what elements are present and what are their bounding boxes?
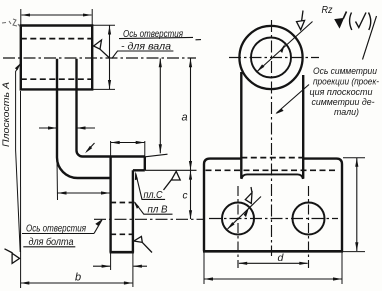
check mark inside parentheses bbox=[356, 13, 367, 28]
surface flag on boss right face (triangle with tail to axis) bbox=[94, 40, 109, 58]
parenthesis left bbox=[350, 13, 352, 31]
extension line: pad width left (base left face extended up) bbox=[110, 141, 112, 157]
step (pad) bottom edge - plane C bbox=[133, 169, 145, 171]
leader/underline of Плоскость А down to datum flag bbox=[16, 64, 21, 253]
dimension: leg length (x 57..110 at y=193) bbox=[58, 192, 111, 194]
dimension b: overall depth at y=277 bbox=[21, 282, 133, 284]
dimension d: between bolt hole centers bbox=[239, 262, 308, 264]
base plate bottom edge bbox=[203, 250, 343, 253]
extension line: base top right bbox=[343, 157, 365, 159]
base plate outline bbox=[204, 159, 342, 252]
extension lines below base plate (thickness dim) bbox=[110, 254, 112, 271]
dimension: pad width (arrows inside pointing out) bbox=[111, 142, 144, 144]
extension line for leg top surface (slightly skewed like the scan) bbox=[145, 154, 168, 157]
upright left edge (tangent) bbox=[240, 72, 242, 179]
svg-text:ция плоскости: ция плоскости bbox=[310, 87, 373, 97]
radius leader arrow pointing at inner fillet bbox=[87, 143, 95, 152]
hidden line: base top edge behind upright bbox=[241, 157, 303, 159]
surface flag on base right face (bottom) bbox=[134, 236, 152, 252]
extension lines: overall width bbox=[203, 253, 205, 285]
dimension c: plane C to bolt axis (vertical at x=190.5) bbox=[190, 171, 192, 219]
hidden line: shaft hole top bbox=[21, 38, 92, 40]
surface flag on left bolt hole with tail bbox=[245, 187, 252, 203]
tiny scribble top-left bbox=[2, 19, 20, 27]
extension line: plane C level extended right bbox=[145, 169, 197, 171]
extension line: boss bottom edge extended right bbox=[92, 88, 115, 90]
upright web left edge with outer fillet into leg bottom bbox=[57, 59, 111, 178]
hidden line: bolt hole lower bbox=[111, 233, 133, 235]
svg-text:проекции (проек-: проекции (проек- bbox=[313, 77, 379, 87]
hidden line: rear pad step across base bbox=[206, 169, 339, 171]
hidden line: bolt hole upper bbox=[111, 202, 133, 204]
extension line above boss left edge bbox=[20, 9, 22, 25]
base plate left face bbox=[109, 157, 111, 253]
extension line: pad width right bbox=[144, 141, 146, 157]
filled surface-finish check symbol bbox=[335, 19, 343, 28]
extension line: base bottom right bbox=[343, 251, 365, 253]
center line: bolt hole axis (side view) bbox=[94, 218, 205, 220]
center line: shaft axis bbox=[3, 57, 196, 59]
dimension: base plate thickness (arrows outside pointing in) bbox=[93, 265, 110, 267]
inner circle: shaft hole bbox=[251, 38, 291, 78]
center line: right bolt hole vertical bbox=[308, 186, 310, 268]
extension line for b along boss front face bbox=[20, 91, 22, 288]
dimension a: axis to plane C (vertical at x=190.5) bbox=[190, 59, 192, 171]
step line where upright meets base (plane C front) with curled ends bbox=[242, 174, 303, 179]
svg-text:Ось симметрии: Ось симметрии bbox=[313, 66, 377, 76]
surface flag on outer circle (top right) with tail bbox=[297, 11, 305, 30]
vertical center line (axis of symmetry) bbox=[271, 20, 273, 256]
dimension: base height (right side) bbox=[356, 158, 358, 251]
leader arrow for axis-of-symmetry note bbox=[277, 85, 310, 114]
dimension: web thickness (arrows outside pointing in) bbox=[39, 127, 57, 129]
dimension: overall width at y=279 bbox=[205, 278, 342, 280]
diameter dimension inside shaft hole (diagonal double arrow) bbox=[257, 22, 313, 72]
dimension: axis to leg top (vertical at x=160.3) bbox=[159, 59, 161, 154]
base plate bottom edge bbox=[110, 251, 134, 254]
datum flag for plane A (bottom left, open triangle + tail) bbox=[5, 249, 20, 264]
outer circle of boss bbox=[239, 26, 302, 89]
hidden line: shaft hole bottom bbox=[21, 78, 92, 80]
center line: left bolt hole vertical bbox=[237, 186, 239, 268]
extension line above boss right edge bbox=[91, 9, 93, 25]
svg-text:тали): тали) bbox=[334, 107, 359, 117]
long slash bbox=[363, 16, 377, 60]
upright web right edge with inner fillet into leg top bbox=[77, 59, 145, 157]
center line: bolt holes horizontal bbox=[209, 218, 338, 220]
svg-text:Rz: Rz bbox=[322, 5, 333, 16]
bolt hole right bbox=[293, 203, 325, 235]
svg-text:b: b bbox=[75, 272, 81, 284]
dimension line: boss length (top) bbox=[22, 14, 92, 16]
svg-text:a: a bbox=[182, 112, 188, 124]
base plate right face - plane B bbox=[132, 170, 134, 252]
diameter dimension inside left bolt hole bbox=[228, 197, 262, 230]
svg-text:c: c bbox=[183, 191, 188, 202]
svg-text:Ось отверстия: Ось отверстия bbox=[26, 223, 86, 235]
svg-text:для болта: для болта bbox=[29, 236, 74, 248]
surface finish tick symbol on plane C extension bbox=[164, 171, 181, 190]
horizontal center line through boss bbox=[229, 57, 319, 59]
extension line: web left edge through fillet bbox=[56, 160, 59, 200]
upright right edge (tangent) bbox=[302, 75, 304, 179]
svg-text:Плоскость А: Плоскость А bbox=[1, 82, 12, 147]
boss outline (side view of cylindrical boss) bbox=[21, 26, 92, 90]
extension line: boss top edge extended right bbox=[92, 24, 115, 26]
step (pad) right edge bbox=[144, 157, 146, 171]
dimension line: boss diameter (vertical at x=109.5) bbox=[109, 25, 111, 89]
parenthesis right bbox=[369, 13, 371, 31]
svg-text:симметрии де-: симметрии де- bbox=[312, 97, 375, 107]
bolt hole left bbox=[222, 203, 254, 235]
